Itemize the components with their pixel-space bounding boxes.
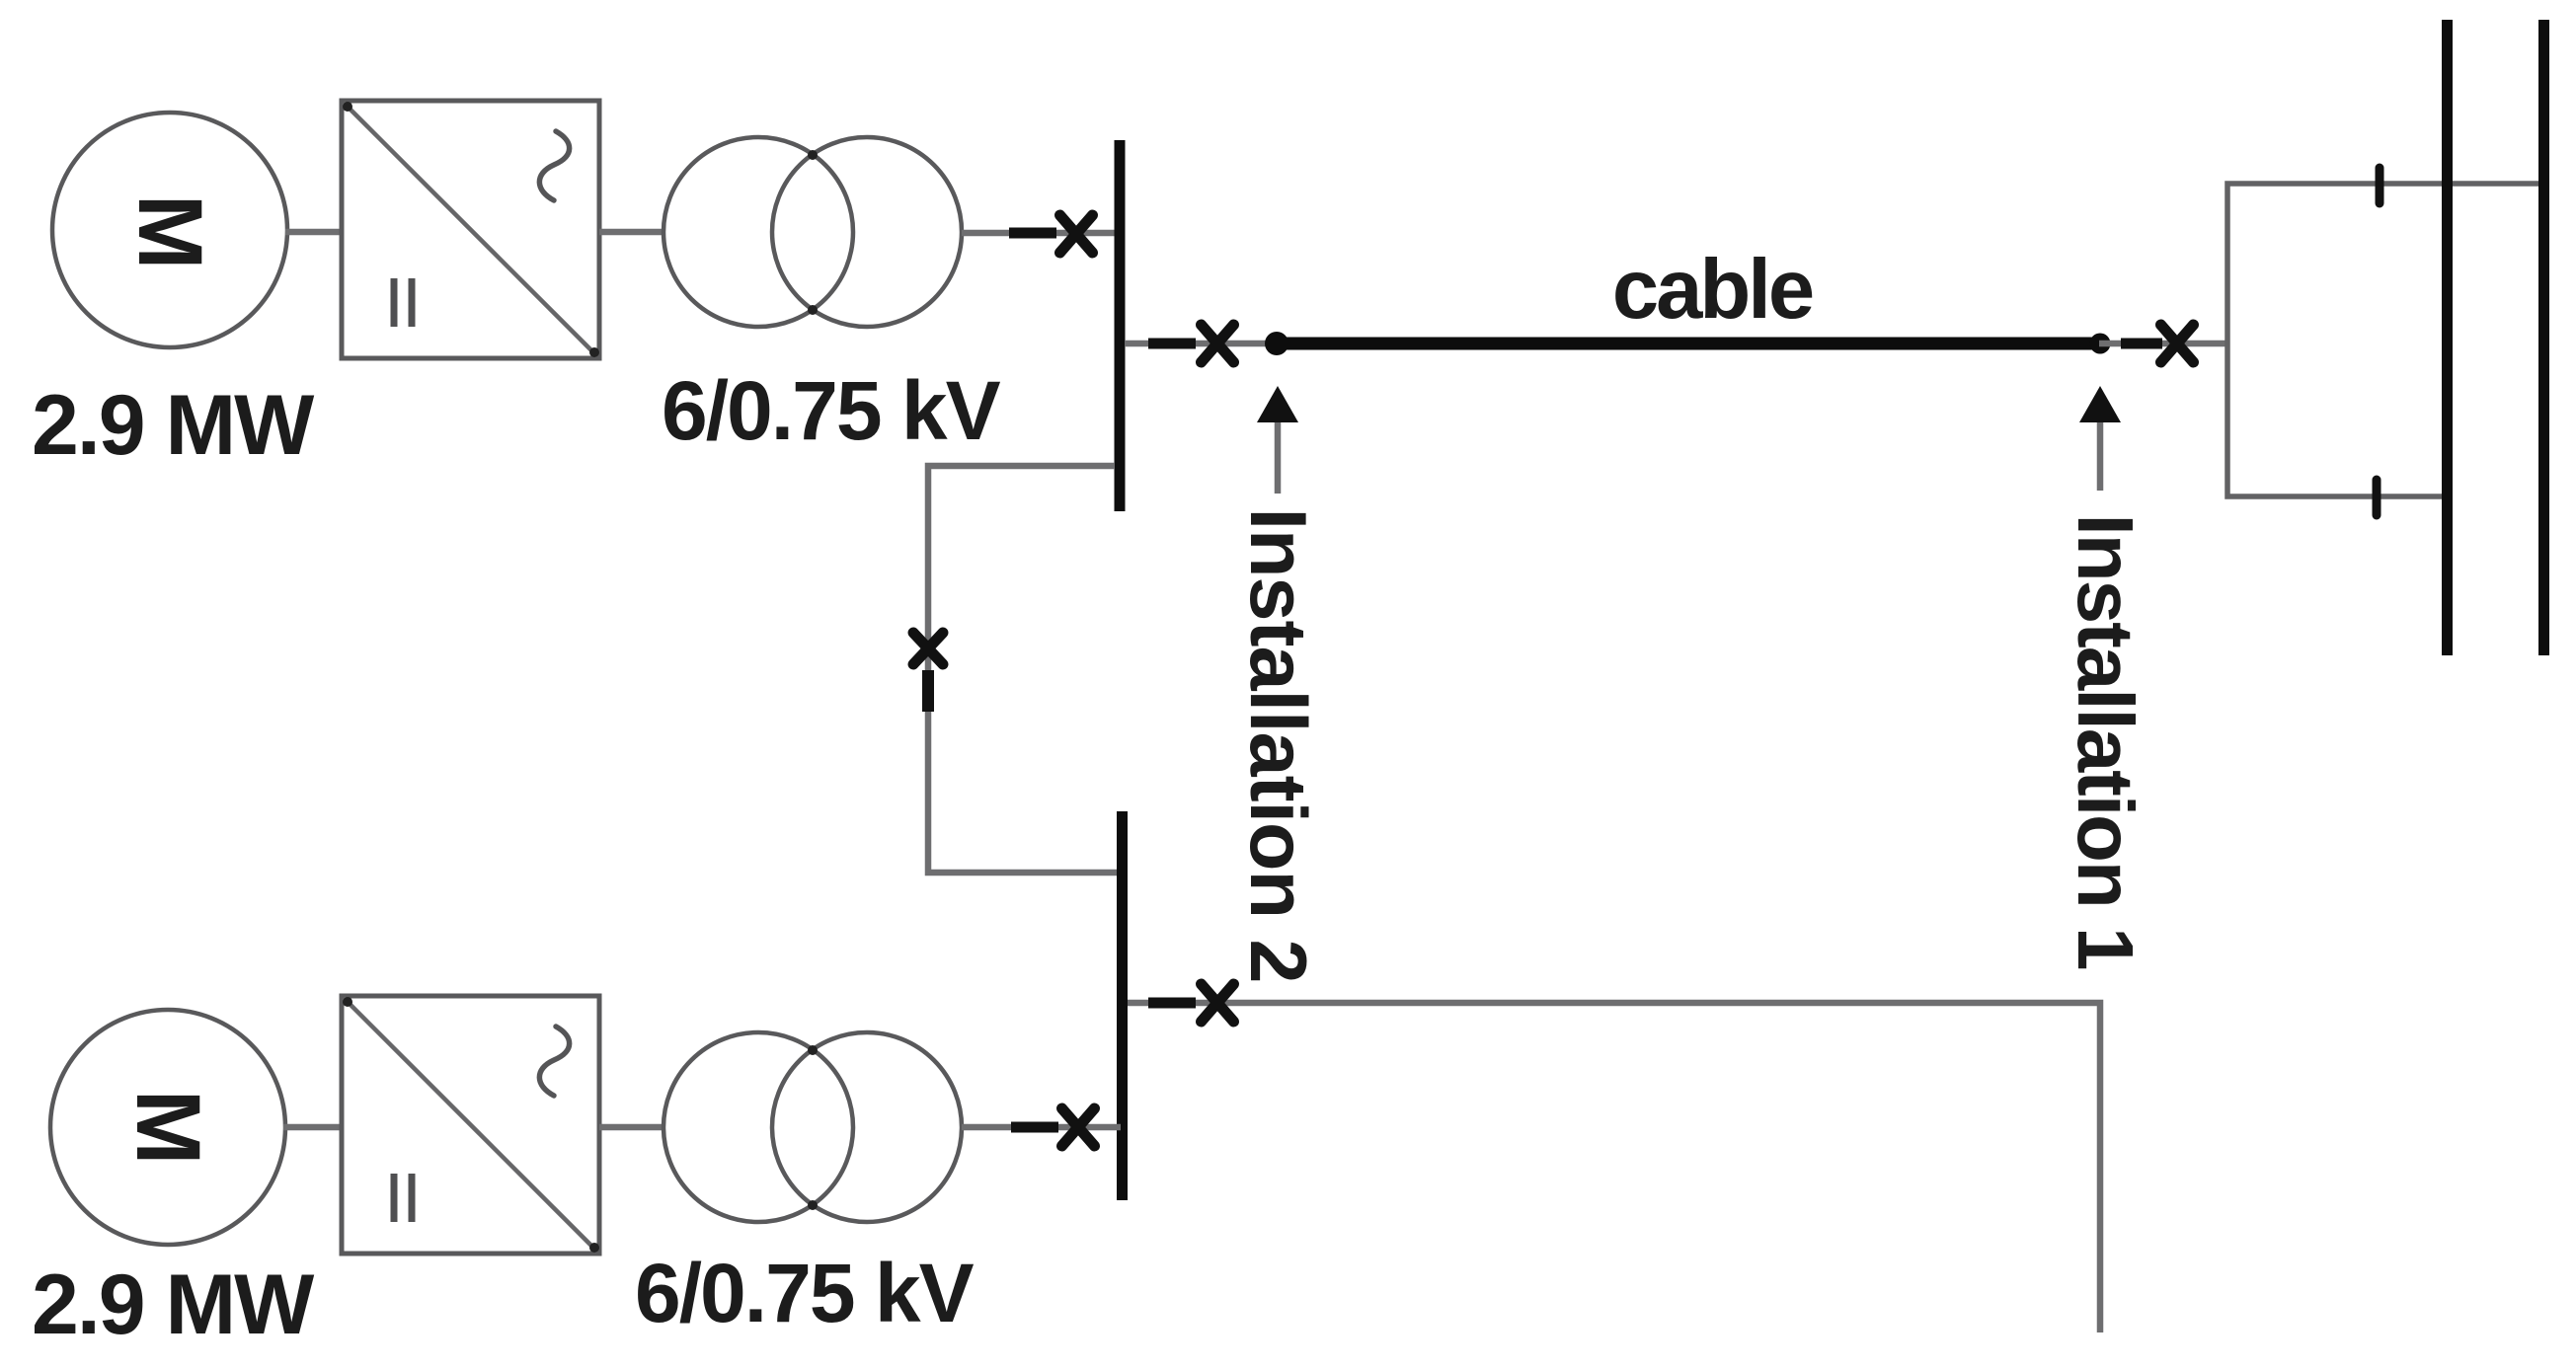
disconnector tick upper [2376,168,2384,203]
wire converter U2 to transformer T2 [599,1124,665,1131]
svg-text:2.9 MW: 2.9 MW [32,378,315,473]
cable (thick line) [1282,338,2093,350]
svg-text:Installation 2: Installation 2 [1233,507,1322,982]
wire busbar B installation 1 feeder [1128,1003,2100,1332]
node cable left junction [1265,332,1288,355]
breaker stub T2 [1011,1122,1058,1133]
busbar grid 1 [2442,20,2453,655]
grid connection box [2227,184,2549,496]
transformer T1 [664,137,962,327]
breaker stub grid [2121,339,2162,349]
breaker X T2 [1062,1108,1095,1146]
tie wire busbar A to busbar B [928,466,1118,873]
breaker stub feeder A [1148,339,1196,349]
busbar grid 2 [2538,20,2549,655]
wire motor M1 to converter [285,229,344,236]
svg-text:6/0.75 kV: 6/0.75 kV [635,1247,975,1339]
svg-text:Installation 1: Installation 1 [2062,514,2149,969]
wire transformer T2 to busbar B [962,1124,1121,1131]
breaker X T1 [1060,215,1093,253]
converter U1 (AC/DC) [342,101,599,358]
breaker X grid [2161,325,2194,362]
disconnector tick lower [2373,480,2381,515]
svg-text:6/0.75 kV: 6/0.75 kV [662,364,1001,457]
breaker X feeder A [1202,325,1234,362]
transformer T2 [664,1032,962,1222]
tie breaker stub [922,670,934,712]
wire motor M2 to converter [283,1124,344,1131]
converter U2 (AC/DC) [342,996,599,1254]
wire cable to grid box [2099,341,2227,347]
breaker stub T1 [1009,228,1056,239]
svg-text:M: M [119,194,220,270]
node cable right junction [2090,334,2111,354]
busbar B (installation 2 lower bus) [1117,811,1128,1200]
breaker X feeder B [1202,984,1234,1022]
wire transformer T1 to busbar A [962,230,1119,237]
arrow Installation 2 [1257,386,1298,494]
motor M1 [52,113,287,347]
motor M2 [50,1010,285,1245]
svg-text:M: M [117,1090,218,1166]
wire converter U1 to transformer T1 [599,229,665,236]
arrow Installation 1 [2079,386,2121,491]
breaker stub feeder B [1148,998,1196,1009]
wire busbar A to cable [1125,341,1276,347]
tie breaker X [913,633,943,664]
busbar A (installation 2 upper bus) [1115,140,1126,511]
svg-text:cable: cable [1612,243,1813,337]
svg-text:2.9 MW: 2.9 MW [32,1257,315,1352]
